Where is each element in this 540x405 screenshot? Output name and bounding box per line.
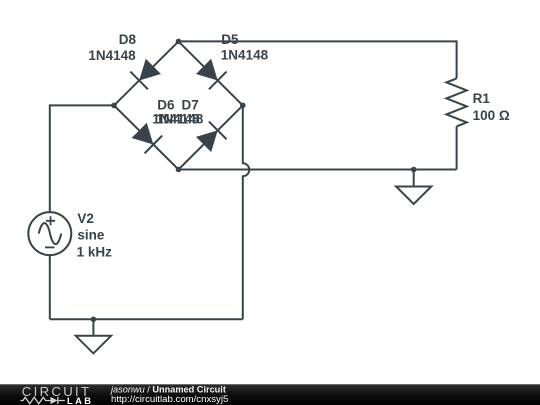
footer black bar [0, 384, 540, 405]
diode D8 edge wire (top node to left node) [114, 41, 179, 105]
V2 plus sign [46, 216, 55, 225]
svg-text:http://circuitlab.com/cnxsyj5: http://circuitlab.com/cnxsyj5 [111, 394, 228, 405]
V2 minus sign [45, 246, 55, 248]
node right junction dot [240, 103, 246, 109]
V2 sine waveform [39, 223, 61, 244]
wire bottom rail of bridge to R1 [179, 169, 457, 171]
diode D8 triangle [139, 59, 161, 81]
node bottom junction dot [176, 167, 182, 173]
diode D7 cathode bar [209, 122, 227, 140]
ground right junction dot [411, 167, 417, 173]
diode D6 edge wire (left node to bottom node) [114, 105, 179, 169]
diode D6 triangle [132, 123, 154, 145]
diode D7 triangle [196, 130, 218, 152]
V2 source circle [28, 212, 71, 255]
svg-text:1N4148: 1N4148 [156, 112, 204, 127]
node left junction dot [111, 103, 117, 109]
svg-text:D7: D7 [182, 97, 199, 112]
diode D7 edge wire (bottom node to right node) [179, 105, 243, 169]
diode D5 edge wire (top node to right node) [179, 41, 243, 105]
svg-text:V2: V2 [77, 211, 94, 226]
diode D5 cathode bar [209, 72, 227, 90]
ground right triangle [396, 187, 431, 205]
wire R1 bottom [456, 126, 458, 169]
svg-text:LAB: LAB [67, 395, 93, 405]
svg-text:D8: D8 [119, 32, 137, 47]
diode D5 triangle [196, 59, 218, 81]
svg-text:100 Ω: 100 Ω [473, 108, 510, 123]
svg-text:D6: D6 [157, 97, 175, 112]
ground left stem [92, 319, 94, 336]
logo resistor zigzag glyph [21, 397, 51, 403]
svg-text:1 kHz: 1 kHz [77, 245, 113, 260]
wire bottom return rail [50, 318, 243, 320]
svg-text:D5: D5 [221, 32, 239, 47]
ground left triangle [76, 336, 111, 354]
svg-text:1N4148: 1N4148 [221, 48, 269, 63]
wire V2 top to bridge left node [50, 105, 114, 212]
logo diode glyph [51, 397, 58, 404]
diode D8 cathode bar [130, 72, 148, 90]
node top junction dot [176, 39, 182, 45]
wire V2 bottom [49, 255, 51, 319]
logo diode bar glyph [58, 397, 65, 404]
svg-text:sine: sine [77, 228, 105, 243]
resistor R1 [446, 78, 466, 126]
svg-text:1N4148: 1N4148 [88, 48, 136, 63]
diode D6 cathode bar [145, 136, 163, 154]
svg-text:R1: R1 [473, 91, 491, 106]
svg-text:jasonwu / Unnamed Circuit: jasonwu / Unnamed Circuit [109, 384, 226, 394]
wire top output: bridge top node to R1 top [179, 41, 457, 78]
ground right stem [413, 170, 415, 187]
wire right node down with hop over horizontal wire [243, 105, 249, 319]
ground left junction dot [91, 317, 97, 323]
